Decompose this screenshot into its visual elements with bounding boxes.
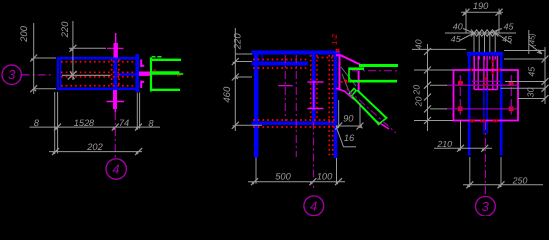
bolt riser 2 [478, 33, 480, 52]
bolt riser 3 [484, 33, 486, 52]
dim 250 ext right [500, 157, 502, 187]
gusset top diagonal edge (magenta) [341, 55, 365, 66]
svg-text:202: 202 [86, 142, 103, 152]
left ext y108 [430, 108, 447, 110]
hidden stiffener edge left (red dotted vertical) [111, 60, 113, 88]
top chord flange (blue) [252, 51, 341, 55]
bottom dim tick 2 [309, 178, 316, 185]
section mark circle 4 (middle view) [304, 196, 324, 216]
dimension 200 tick bottom [30, 85, 37, 92]
left ext y49 [412, 48, 466, 50]
red dot on gusset [345, 80, 347, 82]
svg-text:45: 45 [504, 21, 514, 31]
centerline B continues to circle 4 [313, 122, 315, 189]
dim 250 tick left [466, 181, 473, 188]
gusset plate above tube (magenta thick) [113, 43, 117, 58]
brace centerline (dash-dot) [347, 89, 396, 133]
bolt line b (magenta) [492, 56, 494, 90]
hidden edge left of middle column (red dotted) [310, 55, 312, 121]
dim 210 tick right [481, 145, 488, 152]
dim 90 right extension [359, 103, 361, 128]
inner plate right edge (magenta) [496, 56, 498, 90]
dimension 202 tick left [52, 148, 59, 155]
left ext y70 [414, 69, 453, 71]
bolt riser 4 [489, 33, 491, 52]
svg-text:210: 210 [436, 139, 452, 149]
inner plate bolt axis (purple) [472, 80, 500, 82]
svg-text:20: 20 [414, 97, 424, 108]
bolt line a (magenta) [477, 56, 479, 90]
dimension 220 magenta segment [107, 47, 124, 49]
channel web (green vertical) [150, 57, 152, 91]
svg-text:100: 100 [317, 172, 333, 182]
right chain ticks [542, 56, 549, 103]
dim 90 line [336, 125, 362, 127]
hidden flange edge left of right column (red dotted) [328, 55, 330, 157]
left dim ext 3 [235, 76, 252, 78]
bolt axis crossbar top (magenta) [308, 81, 324, 83]
svg-text:220: 220 [60, 21, 71, 39]
section mark circle 3 (right view) [476, 196, 496, 216]
extension line bottom (to tube) [34, 88, 56, 90]
left column (blue) [254, 55, 258, 158]
dim 190 tick left [463, 9, 470, 16]
dimension 220 line (horizontal grey) [69, 47, 106, 49]
leader 16 diagonal [337, 129, 344, 147]
svg-text:20: 20 [412, 85, 422, 96]
riser ticks reverse (x pattern) [471, 30, 498, 37]
section mark circle 3 (left view) [2, 65, 21, 84]
weld x top-right (red) [498, 68, 501, 71]
hidden line bottom (red dotted) [61, 85, 135, 87]
hidden edge left of right column (red dotted) [332, 55, 334, 155]
LEFT-FIGURE [2, 21, 183, 179]
lower extension twin left a [54, 92, 56, 154]
svg-text:90: 90 [343, 114, 354, 124]
svg-text:45: 45 [526, 67, 536, 77]
bolt pitch dim line [445, 32, 516, 34]
hidden row under top chord right (red dotted) [317, 57, 333, 59]
riser ticks [471, 30, 498, 37]
dim 90 extension [338, 100, 340, 128]
stiffener plate inside tube (blue vertical bar) [113, 59, 117, 88]
svg-text:30: 30 [526, 88, 536, 98]
column centerline to circle 3 [484, 122, 486, 196]
column flange left (blue, plan) [468, 56, 471, 156]
second flange line (blue) [252, 62, 308, 66]
beam end edge (green vertical) [348, 68, 350, 83]
weld x column b (red) [491, 60, 494, 75]
web lines below (blue pair) [484, 90, 487, 135]
channel middle bar tail (green) [179, 73, 183, 75]
gusset top stub (magenta) [336, 54, 341, 56]
brace end plate (magenta vertical) [358, 71, 360, 93]
beam top flange (green) [359, 64, 398, 67]
bolt riser 1 [473, 33, 475, 52]
hidden brace edge 2 (grey) [342, 74, 352, 98]
right end plate (thick blue bar) [135, 54, 139, 92]
column centerline A (dash-dot) [284, 55, 286, 121]
dimension 220 tick [69, 45, 76, 52]
right ext y88.3 [501, 87, 546, 89]
bolt top-left (red) [458, 81, 463, 86]
hidden stiffener edge right (red dotted vertical) [118, 60, 120, 88]
beam bottom flange (green) [350, 80, 397, 83]
bottom ext right column [336, 158, 338, 184]
left dim ext 2 [235, 61, 252, 63]
weld mark on channel tail (dark red) [177, 75, 181, 77]
svg-text:1-2: 1-2 [330, 33, 339, 45]
dimension 220 extension line (vertical) [72, 21, 74, 80]
dimension 202 line [49, 151, 142, 153]
left dim chain line (vertical) [427, 44, 429, 131]
dim 250 ext left [469, 157, 471, 187]
gusset bottom edge (magenta) [336, 88, 354, 99]
gusset plate below tube (magenta thick) [113, 90, 117, 109]
chain tick 3 [135, 124, 142, 131]
left dim tick 3 [232, 122, 239, 129]
leader 45 right a [490, 29, 502, 34]
dim 90 tick left [335, 123, 342, 130]
channel bottom flange (green) [150, 89, 180, 91]
svg-text:3: 3 [8, 67, 16, 82]
web line left (magenta) [483, 56, 485, 90]
lower extension twin right a [136, 93, 138, 129]
right column (blue) [334, 55, 338, 159]
svg-text:220: 220 [232, 33, 243, 51]
weld x top-left (red) [470, 68, 473, 71]
weld x center (red) [484, 77, 487, 86]
left ext y81 [430, 84, 447, 86]
lower extension twin right b [139, 93, 141, 129]
bottom dim tick 3 [335, 178, 342, 185]
left ext y120 [414, 120, 453, 122]
left column inner flange line (blue thin) [261, 55, 263, 66]
centerline down to circle 4 [114, 112, 116, 157]
bottom ext left column [255, 158, 257, 184]
inner plate left edge (magenta) [473, 56, 475, 90]
svg-text:460: 460 [222, 86, 233, 103]
hidden line mid lower (red dotted) [61, 76, 135, 78]
leader arrow to plate end [529, 44, 542, 54]
section mark circle 4 (bottom) [106, 159, 126, 179]
left chain ticks [424, 48, 431, 124]
dim 190 ext left [465, 9, 467, 34]
bolt bottom-right (red) [509, 107, 514, 112]
web line right (magenta) [486, 56, 488, 90]
hidden row above bottom chord (red dotted) [253, 119, 336, 121]
svg-text:8: 8 [34, 118, 40, 128]
svg-text:45: 45 [502, 34, 512, 44]
svg-text:4: 4 [112, 162, 119, 177]
left dim ext top [235, 53, 252, 55]
hidden line mid upper (red dotted) [61, 71, 135, 73]
dim 190 line [461, 11, 503, 13]
svg-text:(45): (45) [528, 33, 537, 47]
channel hidden edge dashes above (green) [152, 56, 156, 58]
anchor stem below (magenta) [114, 109, 116, 112]
hidden row below second flange (red dotted) [253, 67, 308, 69]
right ext y50 [504, 50, 545, 52]
svg-text:200: 200 [19, 25, 30, 43]
beam tube top flange (blue) [57, 57, 136, 60]
svg-text:500: 500 [275, 172, 291, 182]
leader 45 right b [496, 33, 512, 44]
clip angle tab lower (magenta) [141, 81, 144, 89]
dim 250 line [463, 184, 543, 186]
hidden row below bottom chord (red dotted) [253, 126, 336, 128]
grey axis line inside tube [62, 74, 111, 76]
left dim tick 1 [232, 58, 239, 65]
dim 250 tick right [498, 181, 505, 188]
clip angle tab upper (magenta) [141, 60, 144, 68]
svg-text:3: 3 [482, 199, 490, 214]
connection plate to channel (magenta thick horizontal) [139, 71, 150, 75]
centerline from circle 3 [22, 74, 54, 76]
middle column (blue) [312, 55, 316, 122]
bolt axis vertical (magenta) [313, 81, 315, 110]
svg-text:40: 40 [414, 39, 424, 49]
extension line top (to tube) [34, 57, 56, 59]
svg-text:8: 8 [89, 118, 95, 128]
column centerline B (dash-dot) [295, 55, 297, 157]
beam centerline (dash-dot) [352, 70, 397, 72]
RIGHT-FIGURE [412, 1, 549, 216]
channel top flange (green) [150, 59, 181, 61]
bottom chord (blue) [252, 121, 337, 124]
leader 45 left [460, 33, 475, 41]
bolt bottom-left (red) [458, 107, 463, 112]
weld xx row bottom (dark red) [470, 119, 498, 122]
svg-text:40: 40 [453, 21, 463, 31]
brace top corner elbow (green) [349, 89, 356, 97]
brace lower edge (green) [352, 97, 379, 125]
base plate rectangle (magenta) [454, 70, 519, 121]
leader 16 underline [344, 146, 357, 148]
left dim ext bottom [235, 124, 262, 126]
svg-text:16: 16 [344, 133, 355, 143]
bolt top-right (red) [509, 81, 514, 86]
MIDDLE-FIGURE [222, 28, 398, 216]
centerline crossbar A (magenta) [278, 85, 293, 87]
hidden beam flange behind gusset (red dotted) [341, 81, 349, 83]
bottom dim tick 1 [251, 178, 258, 185]
gusset vertical edge (magenta) [339, 55, 341, 91]
chain tick 2 [112, 124, 119, 131]
section cut tick at axis [68, 71, 77, 80]
svg-text:190: 190 [473, 1, 489, 11]
dim 90 tick right [357, 123, 364, 130]
bottom dim line [248, 181, 345, 183]
dim 210 line [434, 147, 492, 149]
end plate left outer edge [57, 57, 59, 90]
bolt gauge vertical right (purple) [510, 75, 512, 115]
web mid line right of stiffener (blue) [117, 73, 136, 76]
bolt riser 5 [494, 33, 496, 52]
hidden brace edge 1 (grey) [341, 67, 356, 86]
svg-text:74: 74 [119, 118, 129, 128]
right ext y59 [504, 58, 545, 60]
svg-text:4: 4 [310, 198, 317, 213]
right ext y81.5 [505, 81, 545, 83]
dim 210 tick left [457, 145, 464, 152]
end plate left inner edge [60, 60, 62, 88]
svg-text:45: 45 [451, 34, 461, 44]
brace upper edge (green) [357, 90, 386, 117]
dim 190 ext right [498, 9, 500, 34]
beam end plate region (green thick) [349, 67, 365, 70]
brace end cut (green) [378, 117, 388, 125]
weld mark on channel (dark red) [153, 69, 157, 71]
gusset lower edge tail (magenta) [377, 121, 390, 129]
svg-text:8: 8 [148, 118, 154, 128]
anchor crossbar below (magenta) [107, 101, 125, 103]
beam tube bottom flange (blue) [57, 88, 136, 91]
bolt gauge vertical left (purple) [459, 75, 461, 115]
chain tick 1 [54, 124, 61, 131]
svg-text:250: 250 [512, 176, 528, 186]
left dim line (vertical) [234, 28, 236, 131]
dim 190 tick right [496, 9, 503, 16]
anchor dashes below plate (magenta) [474, 56, 495, 59]
dimension 202 tick right [135, 148, 142, 155]
weld symbol red x [336, 49, 340, 53]
dimension 200 tick top [30, 55, 37, 62]
dimension chain line 1 [30, 126, 161, 128]
beam end plate (blue bar, plan) [467, 52, 503, 56]
bolt gauge line horizontal bottom (purple) [446, 108, 518, 110]
hidden edge right of middle column (red dotted) [316, 55, 318, 121]
hidden row above second flange (red dotted) [253, 59, 308, 61]
leader 40 left [463, 29, 474, 34]
dim 210 ext [460, 121, 462, 151]
inner plate bottom edge (magenta) [474, 89, 497, 91]
right ext y98.5 [518, 98, 545, 100]
bolt gauge line horizontal top (purple) [446, 84, 518, 86]
column flange right (blue, plan) [500, 56, 503, 156]
bolt axis crossbar bottom (magenta) [308, 108, 324, 110]
bracket note vertical line [528, 30, 530, 54]
channel middle bar (green thick) [151, 71, 180, 75]
hidden line top (red dotted) [61, 61, 135, 63]
lower extension twin left b [57, 92, 59, 154]
right dim chain line (vertical) [544, 47, 546, 104]
left dim tick 2 [232, 74, 239, 81]
gusset plate stem above (magenta thin) [115, 33, 117, 44]
dimension 200 line (vertical) [33, 23, 35, 94]
svg-text:152: 152 [74, 118, 90, 128]
